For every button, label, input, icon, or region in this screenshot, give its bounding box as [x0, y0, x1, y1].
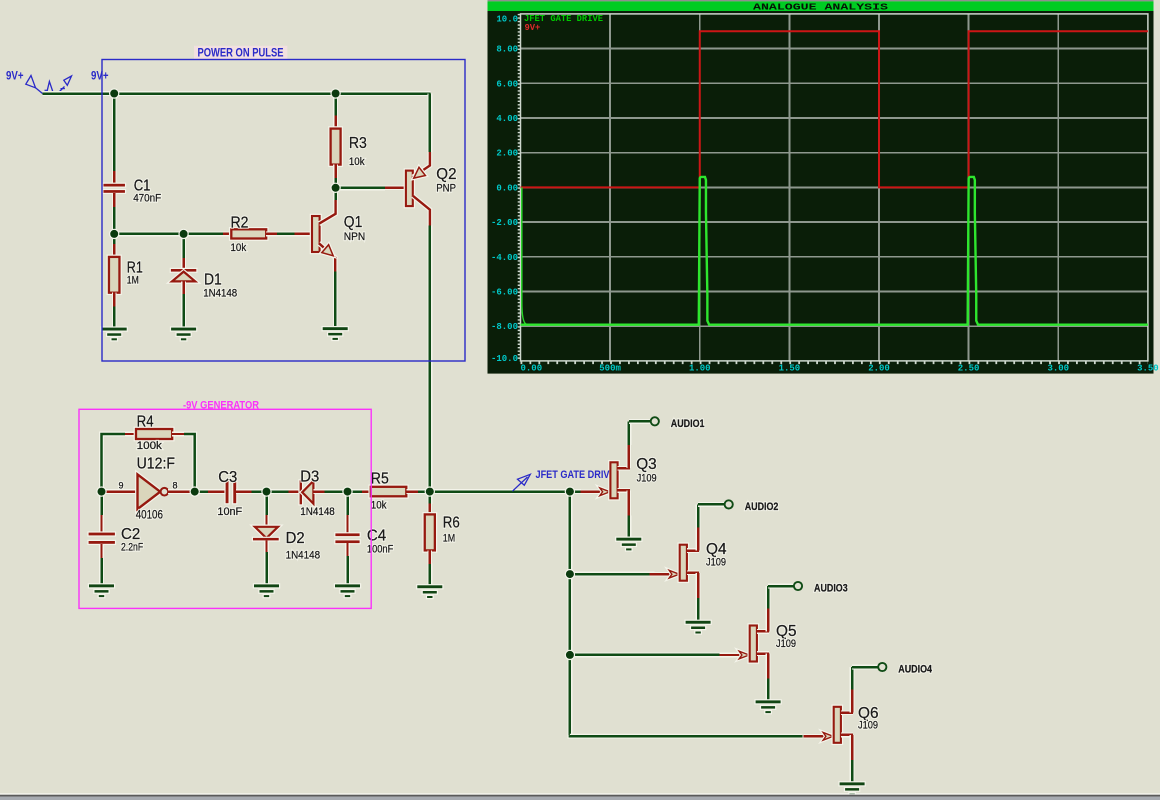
y-axis labels — [491, 14, 518, 364]
svg-text:J109: J109 — [858, 720, 878, 732]
svg-text:1.50: 1.50 — [779, 364, 801, 374]
junction node bus Q5 — [565, 650, 575, 660]
wire C4 node to R5 — [348, 489, 363, 494]
svg-text:Q4: Q4 — [706, 541, 727, 558]
wire bus corner to Q6 gate — [570, 735, 803, 736]
svg-text:AUDIO4: AUDIO4 — [898, 664, 932, 676]
wire Q4 source to ground — [696, 598, 701, 622]
wire C4 node down — [345, 492, 350, 516]
-9V GENERATOR box — [79, 409, 371, 608]
plot vertical gridlines — [610, 14, 1058, 361]
junction node bus Q4 — [565, 569, 575, 579]
svg-text:AUDIO1: AUDIO1 — [671, 418, 705, 430]
wire Q4 drain to AUDIO2 — [698, 504, 724, 527]
ground Q5 — [754, 699, 781, 714]
ground R6 — [416, 584, 443, 599]
AUDIO2 terminal — [725, 500, 733, 508]
svg-text:Q1: Q1 — [344, 214, 363, 231]
wire Q6 drain to AUDIO4 — [852, 667, 878, 690]
wire collector node to Q2 base — [336, 185, 385, 190]
svg-text:0.00: 0.00 — [521, 364, 543, 374]
svg-text:R6: R6 — [443, 514, 460, 531]
wire D2 node to D3 — [267, 489, 290, 494]
wire D1 to ground — [181, 294, 186, 329]
resistor R3 — [331, 116, 341, 179]
junction node JFET bus top — [565, 486, 575, 496]
capacitor C3 — [208, 480, 252, 505]
ground C2 — [88, 583, 115, 598]
wire D3 to C4 node — [324, 489, 348, 494]
svg-text:2.00: 2.00 — [868, 364, 890, 374]
svg-text:R2: R2 — [231, 215, 249, 232]
ground R1 — [101, 326, 128, 341]
svg-text:8.00: 8.00 — [496, 45, 518, 55]
wire R3 to collector node — [333, 178, 338, 189]
svg-text:C3: C3 — [218, 469, 237, 486]
junction node D2 — [261, 486, 271, 496]
wire rail to R3 — [333, 94, 338, 117]
svg-text:D1: D1 — [204, 271, 222, 288]
wire R2 to Q1 base — [277, 231, 296, 236]
ground Q4 — [684, 620, 711, 635]
svg-text:3.00: 3.00 — [1047, 364, 1069, 374]
wire gate node to bus node — [430, 489, 570, 494]
junction node inverter input — [96, 486, 106, 496]
svg-text:6.00: 6.00 — [496, 79, 518, 89]
junction rail-R3 — [330, 88, 340, 98]
svg-text:10k: 10k — [371, 500, 387, 512]
wire Q2 collector to R5 node — [427, 225, 432, 492]
diode D3 1N4148 — [289, 479, 325, 505]
svg-text:1.00: 1.00 — [689, 364, 711, 374]
svg-text:9: 9 — [119, 480, 124, 490]
wire C4 to ground — [345, 541, 350, 586]
POWER ON PULSE label — [194, 46, 287, 60]
svg-text:0.00: 0.00 — [496, 183, 518, 193]
resistor R4 — [125, 429, 184, 439]
analysis panel title bar — [488, 1, 1154, 12]
svg-text:-10.0: -10.0 — [491, 354, 518, 364]
wire R1 to ground — [112, 306, 117, 329]
wire R4 right branch — [184, 434, 195, 492]
junction node D1 — [178, 229, 188, 239]
transistor Q6 J109 JFET — [804, 690, 854, 760]
wire C3 to D2 node — [251, 489, 267, 494]
window bottom edge — [0, 793, 1160, 800]
svg-text:R4: R4 — [137, 413, 154, 430]
analysis panel frame top strip — [488, 0, 1154, 1]
green trace JFET GATE DRIVE waveform — [521, 177, 1148, 325]
svg-text:1M: 1M — [127, 274, 139, 286]
ground D1 — [170, 326, 197, 341]
svg-text:-6.00: -6.00 — [491, 288, 518, 298]
wire R4 left branch — [102, 434, 126, 492]
svg-text:-8.00: -8.00 — [491, 322, 518, 332]
svg-text:3.50: 3.50 — [1137, 364, 1159, 374]
wire inverter out to C3 — [195, 489, 209, 494]
svg-text:PNP: PNP — [436, 183, 456, 195]
junction node R5/R6 — [425, 486, 435, 496]
svg-text:1M: 1M — [443, 532, 455, 544]
svg-text:9V+: 9V+ — [6, 71, 24, 83]
wire bus node to Q3 gate — [570, 489, 581, 494]
wire bus to Q5 gate — [570, 652, 723, 657]
svg-text:D3: D3 — [300, 469, 319, 486]
svg-text:2.2nF: 2.2nF — [121, 541, 143, 553]
wire gate node below — [427, 492, 432, 504]
svg-text:J109: J109 — [637, 473, 657, 485]
analysis panel plot background — [488, 11, 1154, 374]
diode D2 1N4148 — [252, 515, 280, 552]
power terminal 9V+ right — [43, 71, 109, 94]
resistor R5 — [362, 487, 418, 497]
capacitor C4 — [334, 515, 361, 556]
junction node inverter output — [190, 486, 200, 496]
transistor Q1 NPN — [295, 200, 336, 272]
wire rail corner to Q2 emitter — [427, 94, 432, 153]
AUDIO1 terminal — [651, 417, 659, 425]
transistor Q5 J109 JFET — [720, 608, 770, 678]
svg-text:J109: J109 — [706, 557, 726, 569]
svg-text:1N4148: 1N4148 — [203, 287, 237, 299]
AUDIO4 terminal — [878, 663, 886, 671]
wire JFET gate bus vertical — [567, 492, 572, 737]
wire D2 node down — [264, 492, 269, 516]
ground Q1 — [322, 326, 349, 341]
svg-text:AUDIO2: AUDIO2 — [745, 501, 779, 513]
svg-text:-4.00: -4.00 — [491, 253, 518, 263]
svg-text:10.0: 10.0 — [496, 14, 518, 24]
svg-text:1N4148: 1N4148 — [300, 506, 335, 518]
ground Q3 — [615, 537, 642, 552]
junction node R3/Q1/Q2 — [330, 183, 340, 193]
svg-text:9V+: 9V+ — [91, 71, 109, 83]
wire 9V rail — [43, 91, 431, 96]
svg-text:8: 8 — [173, 480, 178, 490]
junction rail-C1 — [109, 88, 119, 98]
svg-text:40106: 40106 — [136, 510, 163, 522]
x-axis tick marks — [521, 361, 1148, 364]
svg-text:9V+: 9V+ — [525, 23, 541, 33]
capacitor C2 — [87, 515, 116, 558]
wire collector node down — [333, 188, 338, 201]
svg-text:2.50: 2.50 — [958, 364, 980, 374]
svg-text:1N4148: 1N4148 — [286, 550, 321, 562]
net label JFET GATE DRIVE — [512, 469, 610, 491]
wire R5 to gate node — [418, 489, 431, 494]
power terminal 9V+ left — [6, 71, 43, 94]
resistor R1 — [109, 244, 120, 307]
svg-text:JFET GATE DRIV: JFET GATE DRIV — [536, 469, 611, 481]
svg-text:Q2: Q2 — [436, 166, 456, 183]
wire Q5 source to ground — [766, 679, 771, 702]
wire C1 to base node — [112, 206, 117, 234]
AUDIO3 terminal — [794, 582, 802, 590]
svg-text:4.00: 4.00 — [496, 114, 518, 124]
svg-text:Q3: Q3 — [636, 456, 657, 473]
svg-text:R3: R3 — [349, 135, 367, 152]
plot horizontal gridlines — [521, 49, 1148, 327]
ground D2 — [253, 583, 280, 598]
svg-text:U12:F: U12:F — [137, 456, 176, 473]
y-axis tick marks — [518, 14, 521, 361]
ground C4 — [334, 583, 361, 598]
svg-text:D2: D2 — [286, 530, 305, 547]
wire D2 to ground — [264, 541, 269, 586]
x-axis labels — [521, 364, 1159, 374]
svg-text:J109: J109 — [776, 638, 796, 650]
wire rail to C1 — [112, 94, 117, 172]
transistor Q3 J109 JFET — [580, 445, 630, 515]
diode D1 1N4148 — [170, 258, 198, 294]
inverter U12:F 40106 — [104, 474, 195, 509]
wire C2 to ground — [99, 545, 104, 586]
svg-text:R5: R5 — [371, 470, 389, 487]
svg-text:C4: C4 — [367, 527, 386, 544]
svg-text:470nF: 470nF — [133, 193, 161, 205]
wire Q6 source to ground — [850, 760, 855, 784]
svg-text:2.00: 2.00 — [496, 149, 518, 159]
svg-text:-2.00: -2.00 — [491, 218, 518, 228]
svg-text:100k: 100k — [137, 440, 163, 452]
wire base node row — [114, 231, 223, 236]
resistor R6 — [425, 504, 435, 565]
resistor R2 — [223, 229, 277, 238]
plot frame — [521, 14, 1148, 361]
svg-text:10k: 10k — [349, 156, 365, 168]
wire Q3 source to ground — [626, 515, 631, 538]
svg-text:500m: 500m — [599, 364, 621, 374]
svg-text:10nF: 10nF — [217, 506, 242, 518]
junction base node C1/R1 — [109, 229, 119, 239]
wire bus to Q4 gate — [570, 572, 655, 577]
transistor Q2 PNP — [385, 152, 430, 226]
svg-text:NPN: NPN — [344, 231, 366, 243]
wire Q3 drain to AUDIO1 — [629, 421, 651, 445]
wire node to C2 — [99, 492, 104, 516]
svg-text:10k: 10k — [231, 242, 247, 254]
wire Q5 drain to AUDIO3 — [768, 586, 794, 608]
capacitor C1 — [102, 171, 126, 207]
wire Q1 emitter to ground — [333, 271, 338, 329]
ground Q6 — [838, 781, 865, 796]
svg-text:POWER ON PULSE: POWER ON PULSE — [198, 48, 284, 60]
svg-text:AUDIO3: AUDIO3 — [814, 583, 848, 595]
wire R6 to ground — [427, 564, 432, 587]
POWER ON PULSE box — [102, 60, 465, 362]
red trace 9V+ waveform — [521, 31, 1148, 187]
wire node to R1 — [112, 234, 117, 245]
junction node C4 — [342, 486, 352, 496]
wire node to D1 — [181, 234, 186, 259]
svg-text:ANALOGUE ANALYSIS: ANALOGUE ANALYSIS — [753, 2, 889, 12]
transistor Q4 J109 JFET — [650, 528, 700, 598]
